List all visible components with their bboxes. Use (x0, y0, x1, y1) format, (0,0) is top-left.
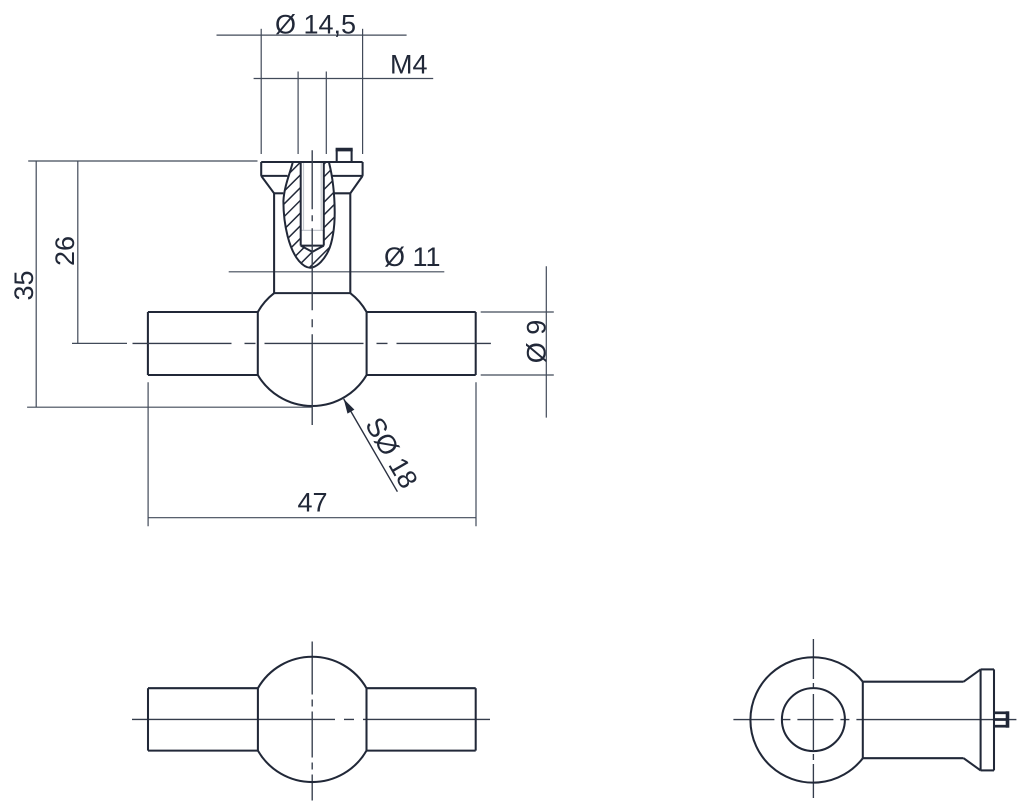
hatch line (280, 143, 345, 208)
pin bottom (side view) (994, 725, 1008, 728)
ball right flat (bottom view) (365, 688, 367, 750)
ball outline arc (side view) (750, 657, 862, 782)
hatch line (280, 118, 345, 183)
dimension line 47 (148, 517, 476, 519)
bar bottom edge right (367, 374, 476, 376)
flange bottom edge right (331, 175, 362, 177)
centerline horizontal bottom view (132, 718, 490, 720)
bar right end (475, 312, 477, 375)
extension line 47 left (147, 382, 149, 526)
flange bottom (side view) (981, 769, 994, 771)
extension line D9 top (481, 311, 554, 313)
bar top edge left (bottom view) (148, 687, 258, 689)
centerline vertical bottom view (311, 642, 313, 801)
extension line bottom 35 (27, 406, 311, 408)
ball truncation line (274, 292, 350, 294)
drill point right (312, 246, 323, 252)
hatch line (280, 156, 345, 221)
shaft top (side view) (863, 681, 964, 683)
arrowhead SO18 (344, 399, 355, 414)
shoulder right (334, 192, 350, 194)
svg-text:47: 47 (297, 488, 327, 518)
extension line M4 right (325, 72, 327, 155)
extension line D14.5 right (362, 29, 364, 154)
ball right flat (366, 312, 368, 375)
neck left (273, 193, 275, 293)
extension line top (35/26) (28, 160, 257, 162)
hatch line (280, 207, 345, 272)
ball flat (side view) (862, 682, 864, 759)
bar top edge right (367, 311, 476, 313)
flange top (side view) (981, 668, 994, 670)
bar top edge right (bottom view) (367, 687, 476, 689)
leader SO18 (344, 399, 398, 492)
ball left top arc (258, 293, 274, 312)
ball bottom arc (bottom view) (258, 751, 367, 782)
centerline horizontal side view (733, 719, 1022, 721)
svg-text:26: 26 (50, 236, 80, 266)
oval section boundary (283, 162, 334, 268)
knob outline front view (148, 150, 476, 407)
hatch line (280, 194, 345, 259)
bar left end (bottom view) (147, 688, 149, 750)
thin thread lines (301, 163, 324, 231)
bar bottom edge left (bottom view) (148, 750, 258, 752)
hatch line (280, 168, 345, 233)
svg-text:Ø 14,5: Ø 14,5 (275, 9, 356, 39)
thread end line (301, 229, 324, 231)
shaft bottom (side view) (863, 757, 964, 759)
cone bottom (side view) (964, 758, 981, 770)
bar circle (side view) (782, 688, 845, 751)
tapped hole bottom (301, 245, 324, 247)
hatch line (280, 130, 345, 195)
flange right (side view) (993, 669, 995, 770)
dimension line D9 (545, 266, 547, 417)
thread hole white cover (301, 161, 324, 252)
bar left end (147, 312, 149, 375)
ball top arc (bottom view) (258, 657, 367, 688)
centerline vertical side view (812, 639, 814, 798)
extension line 47 right (475, 382, 477, 526)
bar bottom edge left (148, 374, 258, 376)
flange left side (260, 162, 262, 176)
tapped hole right wall (323, 162, 325, 246)
neck right (349, 193, 351, 293)
extension line D14.5 left (260, 29, 262, 154)
ball right top arc (350, 293, 366, 312)
flange top edge (261, 161, 362, 163)
bar bottom edge right (bottom view) (367, 750, 476, 752)
svg-text:Ø 9: Ø 9 (521, 320, 551, 364)
pin thick cap (side view) (1006, 711, 1010, 727)
tapped hole left wall (300, 162, 302, 246)
thread minor line right (320, 163, 322, 231)
hatching of sectioned insert (280, 118, 345, 297)
svg-text:35: 35 (9, 270, 39, 300)
flange left (side view) (980, 669, 982, 770)
dimension line D11 (229, 271, 445, 273)
centerline vertical front view (311, 150, 313, 425)
drill point left (301, 246, 313, 252)
shoulder left (274, 192, 283, 194)
bar top edge left (148, 311, 258, 313)
pin right side (351, 150, 353, 163)
svg-text:M4: M4 (390, 50, 428, 80)
svg-text:Ø 11: Ø 11 (384, 242, 441, 272)
ball left flat (bottom view) (257, 688, 259, 750)
ball bottom arc (258, 375, 367, 406)
dimension line D14.5 (217, 34, 407, 36)
thread hole solid lines (301, 162, 324, 252)
cone right (350, 176, 362, 193)
cone top (side view) (964, 669, 981, 681)
extension line bottom 26 (72, 342, 127, 344)
pin top (side view) (994, 711, 1008, 714)
pin left side (336, 150, 338, 163)
dimension line M4 (254, 78, 434, 80)
dimension line 35 (35, 161, 37, 407)
dimension line 26 (77, 161, 79, 343)
extension line M4 left (297, 72, 299, 155)
pin middle edge (side view) (994, 718, 1007, 721)
extension line D9 bottom (481, 374, 554, 376)
thread minor line left (303, 163, 305, 231)
ball left flat (257, 312, 259, 375)
hatch line (280, 181, 345, 246)
bar right end (bottom view) (475, 688, 477, 750)
flange right side (362, 162, 364, 176)
centerline horizontal front view (133, 342, 491, 344)
hatch line (280, 219, 345, 284)
hatch line (280, 232, 345, 297)
flange bottom edge left (261, 175, 287, 177)
cone left (261, 176, 274, 193)
pin thick cap front (336, 148, 353, 152)
